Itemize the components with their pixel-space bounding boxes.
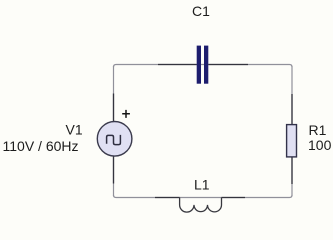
resistor R1	[287, 94, 297, 184]
svg-text:110V / 60Hz: 110V / 60Hz	[3, 138, 79, 154]
C1 left lead	[158, 64, 197, 66]
wire right vertical net	[291, 66, 293, 196]
wire top horizontal net	[114, 65, 293, 68]
C1 right lead	[209, 64, 249, 66]
AC source V1	[97, 94, 132, 184]
V1 bottom lead	[113, 156, 115, 184]
L1 right lead	[222, 197, 246, 199]
V1 polarity plus	[122, 110, 130, 118]
V1 top lead	[113, 94, 115, 122]
C1 left plate	[197, 46, 201, 84]
svg-text:R1: R1	[309, 122, 327, 138]
C1 right plate	[204, 46, 208, 84]
R1 bottom lead	[291, 157, 293, 184]
L1 left lead	[155, 197, 180, 199]
capacitor C1	[158, 46, 248, 84]
svg-text:C1: C1	[192, 3, 210, 19]
wire bottom horizontal net	[114, 195, 293, 198]
svg-text:V1: V1	[66, 121, 83, 137]
L1 coil	[180, 198, 222, 213]
V1 square-wave glyph	[107, 135, 121, 145]
R1 top lead	[291, 94, 293, 125]
R1 body	[287, 125, 297, 157]
V1 body circle	[97, 122, 132, 157]
svg-text:100: 100	[308, 137, 332, 153]
inductor L1	[155, 198, 245, 213]
wire left vertical net	[113, 66, 115, 196]
svg-text:L1: L1	[194, 176, 210, 192]
